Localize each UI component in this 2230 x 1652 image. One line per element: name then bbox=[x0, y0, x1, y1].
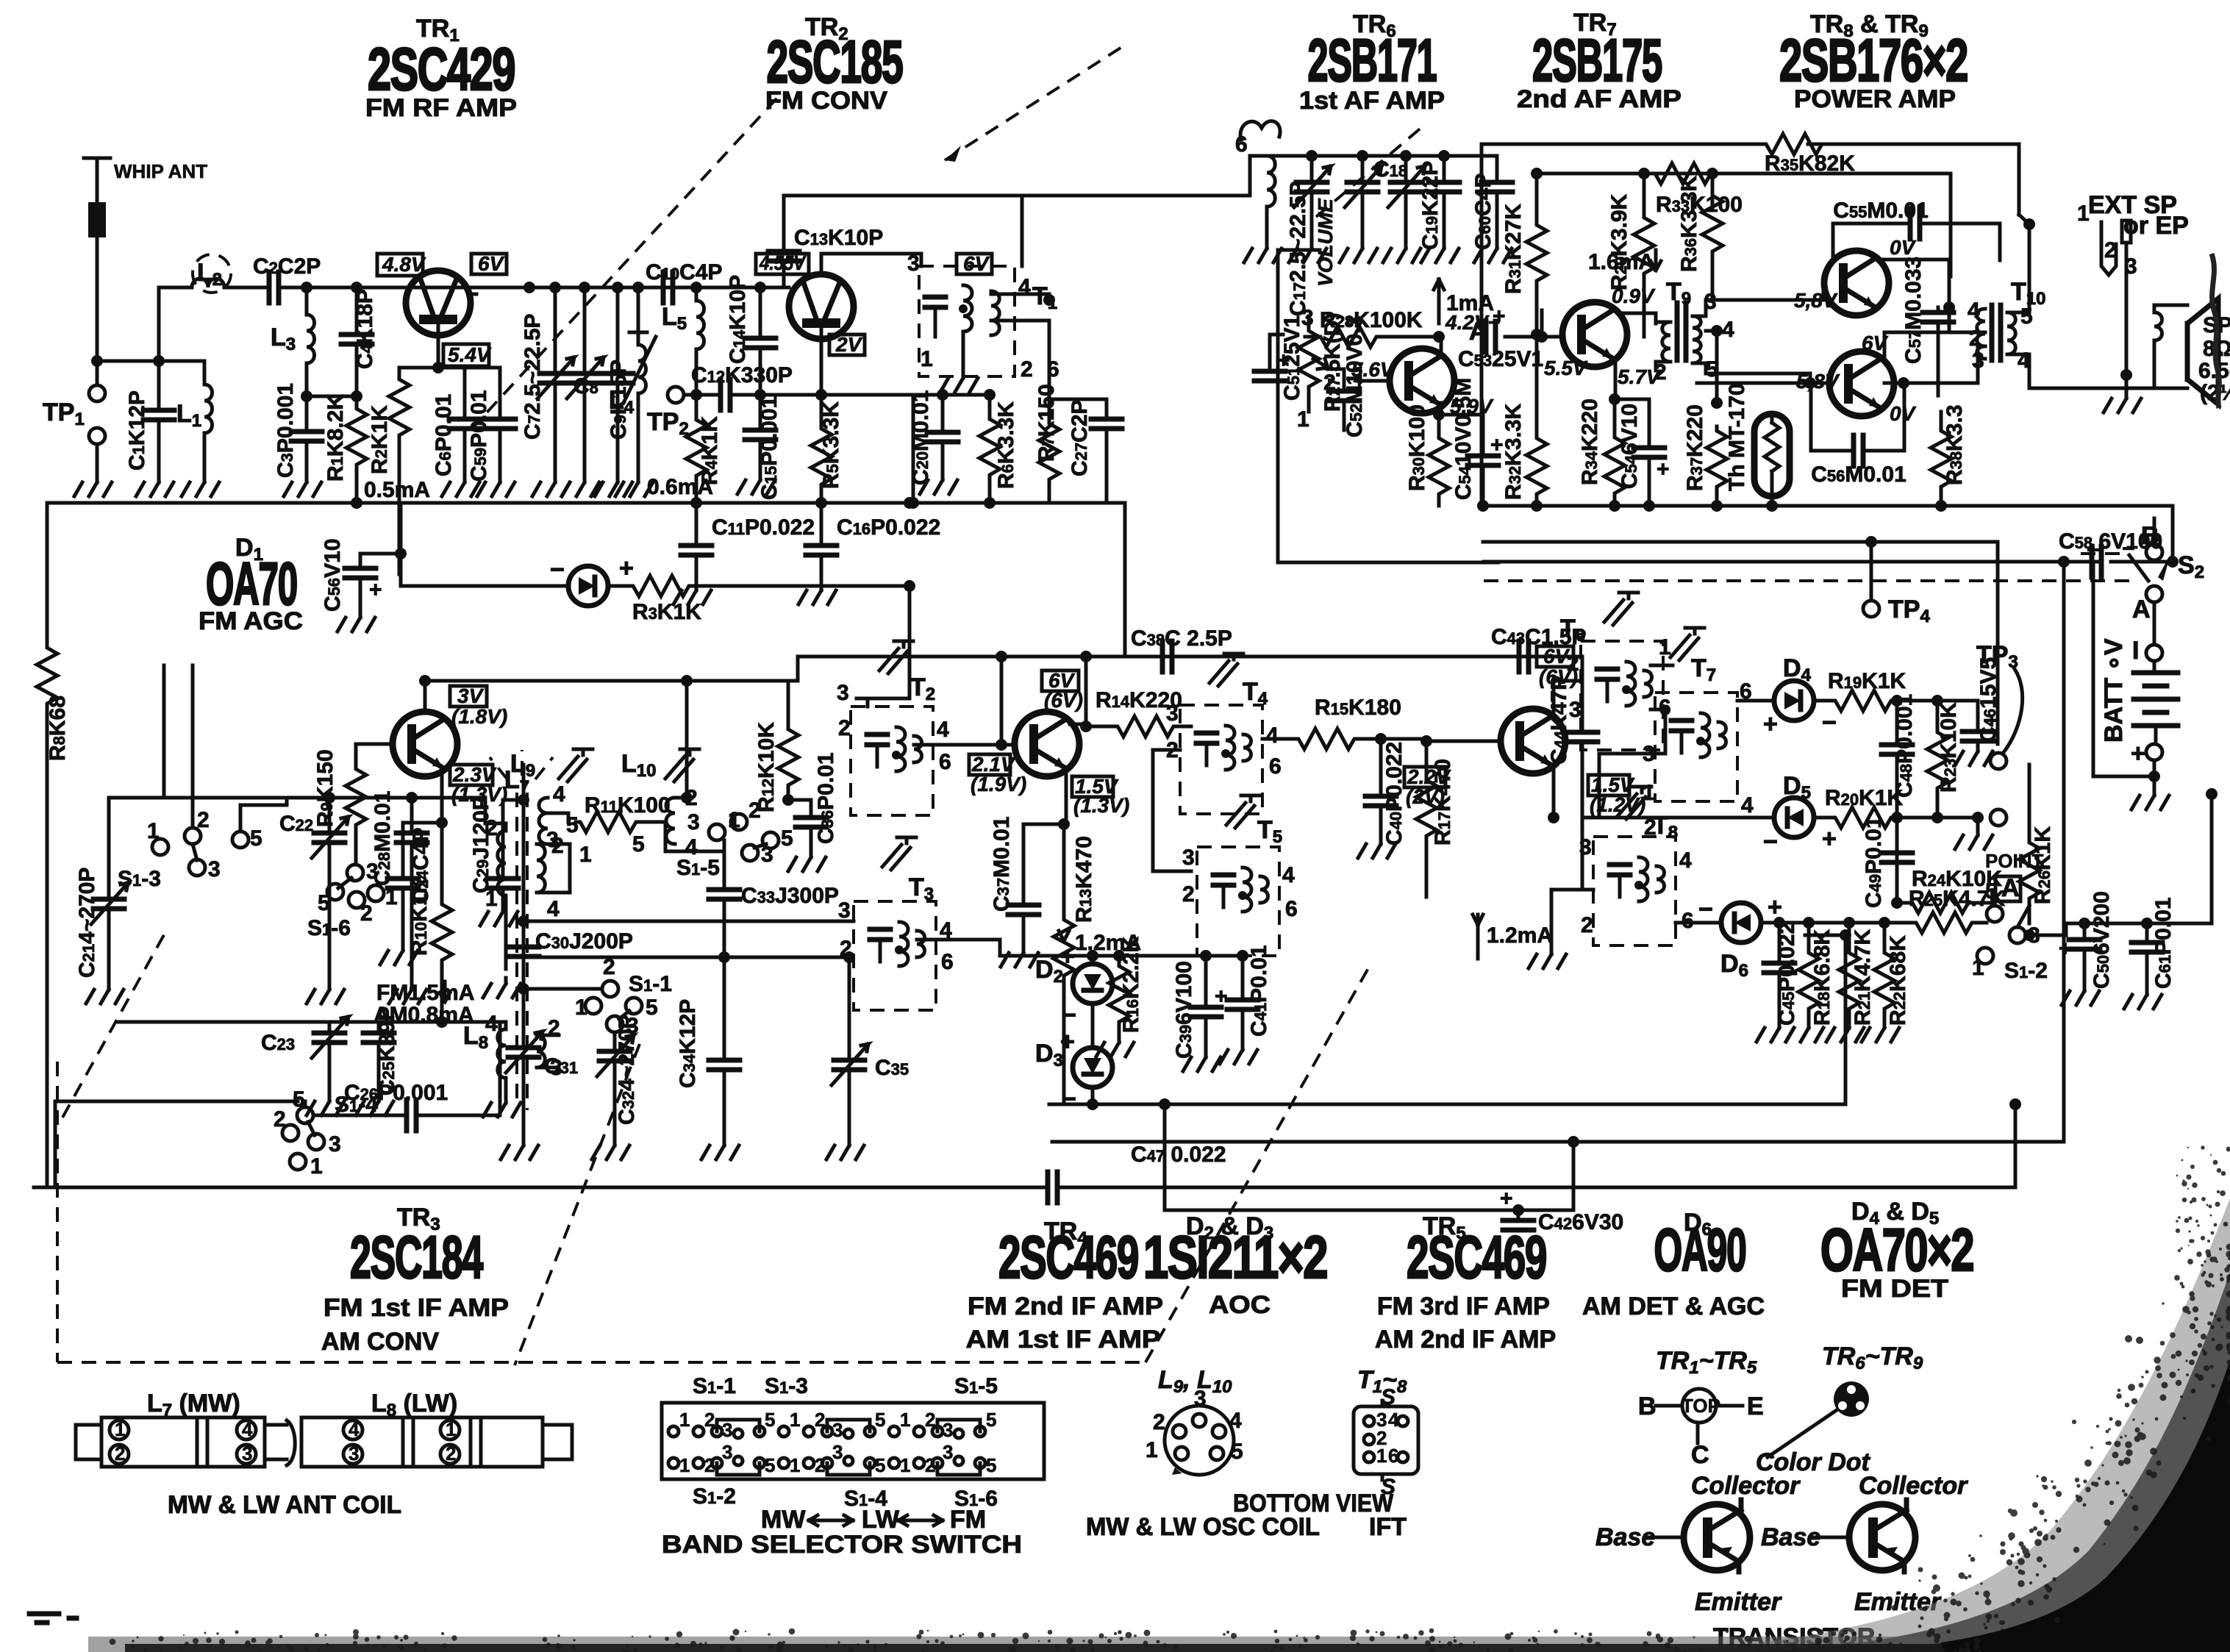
transistor TR2 bbox=[789, 274, 854, 395]
svg-text:2: 2 bbox=[1182, 882, 1195, 907]
resistor R33 bbox=[1651, 163, 1743, 217]
svg-text:OA70×2: OA70×2 bbox=[1820, 1217, 1973, 1284]
svg-text:5,8V: 5,8V bbox=[1796, 370, 1840, 393]
svg-text:2SC185: 2SC185 bbox=[767, 29, 903, 96]
wire T10 feeds bbox=[1949, 307, 1985, 332]
wire T2 feed bbox=[868, 698, 909, 707]
wire R10 bottom rail bbox=[118, 1020, 500, 1024]
speaker coupling coils bbox=[2154, 305, 2187, 388]
resistor R14 bbox=[1096, 688, 1191, 737]
resistor R3 bbox=[629, 576, 701, 624]
resistor R15 bbox=[1294, 696, 1426, 749]
svg-text:C4K18P: C4K18P bbox=[353, 289, 377, 369]
wire main FM bus bbox=[307, 286, 789, 290]
wire AF box left edge bbox=[1480, 144, 1484, 506]
svg-text:R29K3.9K: R29K3.9K bbox=[1607, 193, 1632, 290]
switch S1-4 bbox=[55, 1087, 378, 1187]
resistor R18 bbox=[1786, 923, 1834, 1042]
capacitor C36 bbox=[788, 752, 838, 871]
wire T9 to TR8 base bbox=[1706, 283, 1823, 384]
wire det top rail bbox=[1897, 699, 1978, 703]
svg-text:1: 1 bbox=[115, 1418, 125, 1440]
resistor R22 bbox=[1862, 923, 1910, 1042]
svg-text:R20K1K: R20K1K bbox=[1825, 786, 1904, 810]
jack EXT SP bbox=[2077, 191, 2189, 412]
svg-text:3: 3 bbox=[907, 251, 920, 276]
resistor R35 bbox=[1762, 134, 1855, 176]
svg-text:Base: Base bbox=[1761, 1523, 1820, 1551]
svg-text:2: 2 bbox=[274, 1107, 286, 1131]
svg-text:2: 2 bbox=[1654, 360, 1667, 385]
svg-text:5: 5 bbox=[765, 1409, 775, 1431]
resistor R29 bbox=[1607, 174, 1654, 337]
diode D4 bbox=[1737, 654, 1837, 738]
svg-text:3: 3 bbox=[837, 681, 849, 705]
svg-text:POWER AMP: POWER AMP bbox=[1794, 85, 1956, 113]
capacitor C26 bbox=[316, 1022, 500, 1131]
svg-text:3: 3 bbox=[832, 1419, 843, 1441]
svg-text:C30J200P: C30J200P bbox=[535, 929, 633, 954]
svg-text:C11P0.022: C11P0.022 bbox=[712, 515, 815, 540]
osc coil bottom view bbox=[1086, 1366, 1394, 1541]
svg-text:C396V100: C396V100 bbox=[1172, 961, 1196, 1059]
node emitter TR2 line bbox=[690, 389, 702, 401]
svg-text:FM DET: FM DET bbox=[1841, 1275, 1948, 1303]
svg-text:MW & LW OSC COIL: MW & LW OSC COIL bbox=[1086, 1513, 1320, 1541]
svg-text:MW & LW ANT COIL: MW & LW ANT COIL bbox=[168, 1491, 401, 1519]
capacitor C20 bbox=[909, 390, 958, 494]
svg-text:C61P0.01: C61P0.01 bbox=[2151, 897, 2176, 989]
wire T1 link vertical bbox=[1021, 196, 1024, 266]
svg-text:4: 4 bbox=[242, 1418, 253, 1440]
svg-text:1: 1 bbox=[575, 995, 587, 1020]
svg-text:+: + bbox=[2131, 740, 2145, 768]
speaker SP bbox=[2187, 298, 2230, 405]
coil L8 body bbox=[287, 1420, 295, 1465]
svg-text:R2K1K: R2K1K bbox=[368, 405, 392, 474]
wire AF rail 6V bbox=[1537, 172, 1951, 176]
svg-text:1: 1 bbox=[579, 843, 592, 867]
wire C21 C22 C24 header bbox=[109, 796, 485, 800]
wire TR6 collector bbox=[1440, 337, 1443, 356]
resistor R34 bbox=[1578, 398, 1625, 506]
test point TP2 bbox=[647, 387, 689, 439]
svg-text:2nd AF AMP: 2nd AF AMP bbox=[1517, 85, 1682, 113]
capacitor C41 bbox=[1220, 945, 1271, 1064]
diode D3 bbox=[1035, 1028, 1112, 1113]
svg-text:C29J120P: C29J120P bbox=[469, 795, 493, 893]
wire T4 to T5 link bbox=[1153, 750, 1191, 871]
wire T2 out to TR4 bbox=[914, 743, 1015, 747]
capacitor C33 bbox=[709, 854, 839, 963]
resistor R38 bbox=[1931, 404, 1967, 512]
resistor R17 bbox=[1416, 735, 1455, 897]
svg-text:3: 3 bbox=[1182, 845, 1195, 870]
svg-text:1SI211×2: 1SI211×2 bbox=[1143, 1224, 1327, 1291]
wire IF 6V bus bbox=[425, 657, 1526, 681]
variable capacitor C32 bbox=[592, 1015, 639, 1159]
wire TR7 base bbox=[1542, 335, 1562, 339]
svg-text:C13K10P: C13K10P bbox=[794, 226, 883, 250]
svg-text:C33J300P: C33J300P bbox=[741, 884, 839, 908]
resistor R25 bbox=[1909, 887, 2006, 933]
svg-text:AM CONV: AM CONV bbox=[321, 1328, 439, 1356]
svg-text:2: 2 bbox=[197, 808, 210, 832]
svg-text:5: 5 bbox=[293, 1087, 305, 1112]
switch S1-2 bbox=[1972, 879, 2048, 983]
transistor TR5 bbox=[1426, 709, 1565, 773]
wire T9 secondary taps bbox=[1693, 300, 1717, 373]
svg-text:1: 1 bbox=[679, 1454, 690, 1476]
svg-text:Th MT-170: Th MT-170 bbox=[1725, 383, 1749, 491]
svg-text:R37K220: R37K220 bbox=[1683, 404, 1707, 491]
svg-text:Base: Base bbox=[1595, 1523, 1655, 1551]
svg-text:C14K10P: C14K10P bbox=[726, 275, 750, 364]
svg-text:1: 1 bbox=[790, 1409, 800, 1431]
variable capacitor C17 bbox=[1286, 156, 1331, 316]
svg-text:R21K4.7K: R21K4.7K bbox=[1851, 929, 1875, 1026]
resistor R11 bbox=[548, 793, 671, 867]
svg-text:5: 5 bbox=[632, 832, 645, 857]
svg-text:2V: 2V bbox=[835, 333, 863, 356]
test point TP1 bbox=[43, 361, 112, 496]
wire C3 C4 link bbox=[307, 395, 357, 398]
IFT T8 bbox=[1579, 787, 1694, 945]
svg-text:−: − bbox=[1062, 1085, 1076, 1113]
variable capacitor C22 bbox=[279, 798, 349, 1004]
svg-text:R7K150: R7K150 bbox=[1034, 384, 1059, 462]
capacitor C48 bbox=[1881, 694, 1917, 818]
IFT T6 bbox=[1560, 593, 1671, 750]
wire osc bus bbox=[1250, 154, 1497, 158]
wire T10 secondary to speaker bbox=[2007, 224, 2029, 312]
transistor pinout TR6-TR9 bbox=[1756, 1342, 1923, 1476]
svg-text:6V: 6V bbox=[478, 252, 505, 275]
svg-text:C6P0.01: C6P0.01 bbox=[432, 394, 456, 476]
label D2 D3 title bbox=[1143, 1212, 1327, 1319]
svg-text:2SC469: 2SC469 bbox=[1407, 1224, 1546, 1291]
point A circle bbox=[1955, 809, 2044, 902]
svg-text:5: 5 bbox=[1231, 1440, 1243, 1464]
svg-text:+: + bbox=[1657, 457, 1670, 482]
voltage 2V TR2 bbox=[829, 333, 865, 356]
bottom noise band bbox=[88, 1637, 1941, 1652]
svg-text:4: 4 bbox=[1968, 298, 1980, 323]
svg-text:C55M0.01: C55M0.01 bbox=[1833, 199, 1929, 223]
svg-text:4.8V: 4.8V bbox=[382, 253, 426, 276]
wire AF bottom rail bbox=[1482, 504, 2173, 508]
svg-text:6V: 6V bbox=[963, 252, 990, 275]
whip antenna bbox=[84, 158, 207, 361]
svg-text:C426V30: C426V30 bbox=[1538, 1210, 1623, 1234]
svg-text:C40P0.022: C40P0.022 bbox=[1382, 742, 1407, 845]
svg-text:+: + bbox=[369, 578, 382, 602]
wire TR8 collector out bbox=[1879, 260, 1949, 332]
svg-text:LW: LW bbox=[862, 1506, 900, 1534]
wire AF feedback top bbox=[1482, 144, 2029, 224]
wire TR4 emitter bbox=[1065, 768, 1068, 824]
svg-text:FM 1st IF AMP: FM 1st IF AMP bbox=[324, 1294, 509, 1322]
svg-text:Emitter: Emitter bbox=[1695, 1588, 1782, 1616]
svg-text:C48P0.001: C48P0.001 bbox=[1893, 694, 1917, 798]
resistor R36 bbox=[1677, 174, 1723, 300]
svg-text:1: 1 bbox=[900, 1454, 910, 1476]
svg-text:Collector: Collector bbox=[1691, 1472, 1801, 1500]
resistor R24 bbox=[1891, 818, 2002, 913]
capacitor C30 bbox=[508, 929, 633, 956]
svg-text:MW: MW bbox=[761, 1506, 806, 1534]
capacitor C51 electrolytic bbox=[1254, 315, 1304, 401]
capacitor C2 bbox=[253, 254, 321, 303]
wire C43 to T6 bbox=[1529, 655, 1581, 659]
wire osc spine bbox=[522, 765, 526, 989]
battery BATT bbox=[2093, 562, 2178, 809]
svg-text:3: 3 bbox=[1166, 701, 1179, 726]
diode D2 bbox=[1035, 943, 1112, 1048]
svg-text:C36P0.01: C36P0.01 bbox=[814, 752, 838, 844]
svg-text:4: 4 bbox=[547, 897, 560, 921]
capacitor C54b electrolytic bbox=[1451, 378, 1504, 506]
bottom left smudge bbox=[29, 1614, 76, 1623]
svg-text:2: 2 bbox=[1021, 357, 1033, 382]
svg-text:C41P0.01: C41P0.01 bbox=[1247, 945, 1271, 1037]
capacitor C12 bbox=[684, 363, 914, 410]
dashed gang line osc bbox=[1316, 126, 1423, 217]
svg-text:0.6mA: 0.6mA bbox=[647, 475, 713, 499]
svg-text:R34K220: R34K220 bbox=[1578, 398, 1602, 485]
wire antenna bus bbox=[97, 360, 204, 363]
svg-text:5: 5 bbox=[566, 813, 579, 837]
wire S1-3 riser bbox=[193, 665, 287, 832]
variable capacitor C18 bbox=[1340, 156, 1407, 262]
svg-text:2SC184: 2SC184 bbox=[350, 1224, 484, 1291]
svg-text:+: + bbox=[619, 554, 634, 582]
svg-text:1: 1 bbox=[1972, 956, 1984, 980]
capacitor C25 bbox=[356, 1006, 399, 1115]
svg-text:E: E bbox=[1747, 1392, 1764, 1420]
voltage 3V TR3 bbox=[450, 684, 507, 728]
voltage 6V TR5 bbox=[1537, 645, 1578, 688]
svg-text:4: 4 bbox=[1741, 793, 1754, 818]
svg-text:1st AF AMP: 1st AF AMP bbox=[1299, 87, 1445, 115]
svg-text:+: + bbox=[1493, 304, 1506, 329]
svg-text:5: 5 bbox=[986, 1409, 996, 1431]
transistor TR3 bbox=[393, 675, 457, 776]
svg-text:+: + bbox=[1060, 943, 1075, 970]
wire det bottom rail bbox=[1897, 816, 1978, 820]
resistor R21 bbox=[1826, 923, 1875, 1042]
svg-text:R32K3.3K: R32K3.3K bbox=[1501, 403, 1526, 500]
wire T4 out bbox=[1262, 737, 1294, 741]
coil L7 body bbox=[101, 1417, 265, 1467]
wire volume box bbox=[1278, 250, 1498, 562]
diode D5 bbox=[1582, 772, 1837, 856]
svg-text:R11K100: R11K100 bbox=[585, 793, 671, 818]
svg-text:or EP: or EP bbox=[2123, 212, 2189, 240]
voltage 6V TR2 bbox=[957, 252, 992, 275]
capacitor C40 bbox=[1358, 733, 1407, 858]
variable capacitor C21 bbox=[75, 665, 164, 1004]
svg-text:+: + bbox=[1763, 710, 1778, 738]
IFT T2 bbox=[837, 641, 951, 815]
resistor R12 bbox=[754, 681, 798, 812]
wire det chain top bbox=[1000, 954, 1243, 958]
svg-text:4: 4 bbox=[1266, 723, 1279, 748]
svg-text:−: − bbox=[1062, 1001, 1076, 1029]
IFT T7 bbox=[1643, 628, 1754, 840]
svg-text:AM 2nd IF AMP: AM 2nd IF AMP bbox=[1375, 1326, 1556, 1354]
right edge squiggle bbox=[2212, 254, 2219, 408]
transistor TR9 bbox=[1829, 351, 1894, 416]
svg-text:R26K1K: R26K1K bbox=[2031, 826, 2055, 904]
antenna rod L7 L8 core bbox=[463, 750, 553, 1110]
capacitor C45 bbox=[1757, 922, 1799, 1042]
label D4 D5 title bbox=[1820, 1198, 1973, 1303]
svg-text:WHIP ANT: WHIP ANT bbox=[114, 160, 207, 182]
wire bus y1553 bbox=[1052, 562, 2064, 1142]
capacitor C49 bbox=[1862, 816, 1912, 908]
resistor R16 bbox=[1096, 936, 1143, 1056]
inductor L7 windings bbox=[483, 816, 570, 998]
capacitor C46 electrolytic bbox=[1955, 657, 2001, 765]
svg-text:2: 2 bbox=[838, 716, 851, 740]
voltage 2.2V TR5 bbox=[1404, 765, 1451, 808]
svg-text:1: 1 bbox=[1146, 1438, 1158, 1462]
svg-text:+: + bbox=[1215, 984, 1228, 1009]
resistor R10 bbox=[407, 823, 452, 1022]
svg-text:C38C 2.5P: C38C 2.5P bbox=[1131, 626, 1232, 651]
band selector switch drawing bbox=[662, 1374, 1044, 1559]
oscillator coil L6 bbox=[1235, 121, 1282, 262]
svg-text:2SC429: 2SC429 bbox=[368, 36, 515, 103]
wire T6 T7 couple bbox=[1599, 665, 1700, 818]
svg-text:4: 4 bbox=[1388, 1409, 1399, 1431]
svg-text:2SB176×2: 2SB176×2 bbox=[1779, 27, 1968, 94]
label TR4 title bbox=[966, 1217, 1164, 1354]
svg-text:4: 4 bbox=[937, 718, 949, 742]
svg-text:AM DET & AGC: AM DET & AGC bbox=[1582, 1292, 1765, 1320]
svg-text:C5125V1: C5125V1 bbox=[1280, 315, 1304, 401]
svg-text:FM 3rd IF AMP: FM 3rd IF AMP bbox=[1377, 1292, 1550, 1320]
svg-text:1: 1 bbox=[147, 819, 160, 843]
svg-text:1: 1 bbox=[1643, 781, 1655, 805]
svg-text:5.6V: 5.6V bbox=[1351, 358, 1395, 381]
capacitor C4 bbox=[341, 287, 377, 396]
svg-text:R23K10K: R23K10K bbox=[1937, 702, 1961, 793]
svg-text:R16K2.2K: R16K2.2K bbox=[1119, 936, 1143, 1033]
capacitor C58 electrolytic bbox=[1484, 529, 2173, 577]
svg-text:C506V200: C506V200 bbox=[2090, 891, 2114, 989]
switch S1-3 bbox=[118, 808, 262, 891]
svg-text:C49P0.01: C49P0.01 bbox=[1862, 816, 1886, 908]
svg-text:C56M0.01: C56M0.01 bbox=[1811, 462, 1906, 487]
svg-text:VOLUME: VOLUME bbox=[1314, 198, 1337, 287]
svg-text:R30K100: R30K100 bbox=[1405, 404, 1429, 491]
svg-text:R5K3.3K: R5K3.3K bbox=[819, 401, 843, 489]
capacitor C15 bbox=[737, 395, 782, 500]
svg-text:TR6~TR9: TR6~TR9 bbox=[1822, 1342, 1923, 1373]
svg-text:5: 5 bbox=[646, 995, 658, 1020]
resistor R1 bbox=[324, 394, 367, 503]
resistor R5 bbox=[811, 395, 843, 503]
svg-text:C5325V1: C5325V1 bbox=[1458, 347, 1543, 371]
current 1.2mA second bbox=[1473, 915, 1553, 959]
blob solid bbox=[1831, 1360, 2230, 1652]
variable inductor L4 bbox=[609, 287, 656, 496]
svg-text:R1K8.2K: R1K8.2K bbox=[324, 394, 348, 482]
label TR2 title bbox=[765, 13, 903, 115]
svg-text:6: 6 bbox=[1388, 1445, 1398, 1467]
svg-text:2SB171: 2SB171 bbox=[1308, 27, 1437, 94]
svg-text:1: 1 bbox=[900, 1409, 910, 1431]
wire C34 C35 header bbox=[523, 956, 849, 959]
svg-text:5: 5 bbox=[1985, 879, 1998, 904]
svg-text:AOC: AOC bbox=[1209, 1291, 1271, 1319]
svg-text:R31K27K: R31K27K bbox=[1501, 204, 1526, 294]
voltage 2.1V TR4 bbox=[969, 753, 1026, 795]
svg-text:R22K68K: R22K68K bbox=[1886, 935, 1910, 1026]
svg-text:1: 1 bbox=[2077, 201, 2090, 226]
wire det out rail bbox=[1849, 921, 1912, 925]
svg-text:2: 2 bbox=[603, 955, 615, 979]
voltage 1.5V TR4 bbox=[1072, 775, 1129, 817]
capacitor C34 bbox=[676, 957, 740, 1159]
capacitor C19 bbox=[1418, 156, 1459, 262]
transformer T10 bbox=[1968, 278, 2045, 373]
wire TR7 emitter bbox=[1614, 358, 1618, 399]
svg-text:2: 2 bbox=[115, 1442, 125, 1465]
voltage 5.4V bbox=[443, 343, 492, 366]
svg-text:C12K330P: C12K330P bbox=[691, 363, 793, 387]
svg-text:R13K470: R13K470 bbox=[1072, 836, 1096, 923]
wire C20 R6 header bbox=[914, 393, 990, 397]
inductor L5 bbox=[662, 287, 704, 395]
svg-text:1: 1 bbox=[446, 1418, 456, 1440]
variable capacitor C35 bbox=[826, 957, 909, 1159]
wire base TR9 bbox=[1697, 382, 1829, 385]
svg-text:C44K47P: C44K47P bbox=[1547, 676, 1571, 765]
label TR8 TR9 title bbox=[1779, 10, 1968, 113]
capacitor C56 electrolytic bbox=[321, 503, 407, 632]
dashed gang line FM tuning bbox=[471, 96, 779, 430]
svg-text:1.6mA: 1.6mA bbox=[1588, 250, 1654, 274]
capacitor C38 bbox=[1131, 626, 1232, 672]
node antenna junction bbox=[91, 355, 103, 367]
svg-text:(2V): (2V) bbox=[1406, 785, 1445, 808]
svg-text:3: 3 bbox=[943, 1419, 953, 1441]
IFT T4 bbox=[1166, 654, 1282, 814]
transistor TR7 bbox=[1562, 302, 1627, 367]
svg-text:2SB175: 2SB175 bbox=[1532, 27, 1662, 94]
svg-text:5: 5 bbox=[765, 1454, 775, 1476]
resistor R8 bbox=[37, 503, 70, 1187]
svg-text:1: 1 bbox=[1297, 407, 1309, 432]
svg-text:1: 1 bbox=[921, 347, 933, 371]
svg-text:4.55V: 4.55V bbox=[759, 251, 807, 274]
switch S1-1 bbox=[523, 955, 672, 1038]
current FM AM bbox=[374, 981, 474, 1027]
node TR1 emitter bbox=[432, 362, 444, 373]
svg-text:(1.3V): (1.3V) bbox=[1073, 794, 1129, 817]
svg-text:R8K68: R8K68 bbox=[46, 696, 70, 761]
svg-text:1: 1 bbox=[1376, 1445, 1387, 1467]
svg-text:4: 4 bbox=[1722, 318, 1734, 342]
wire AGC line bbox=[401, 554, 909, 586]
wire TR2 collector to T1 bbox=[821, 254, 921, 274]
capacitor C9 bbox=[595, 287, 633, 496]
wire T3 out bbox=[917, 940, 1000, 956]
svg-text:−: − bbox=[1822, 709, 1837, 737]
